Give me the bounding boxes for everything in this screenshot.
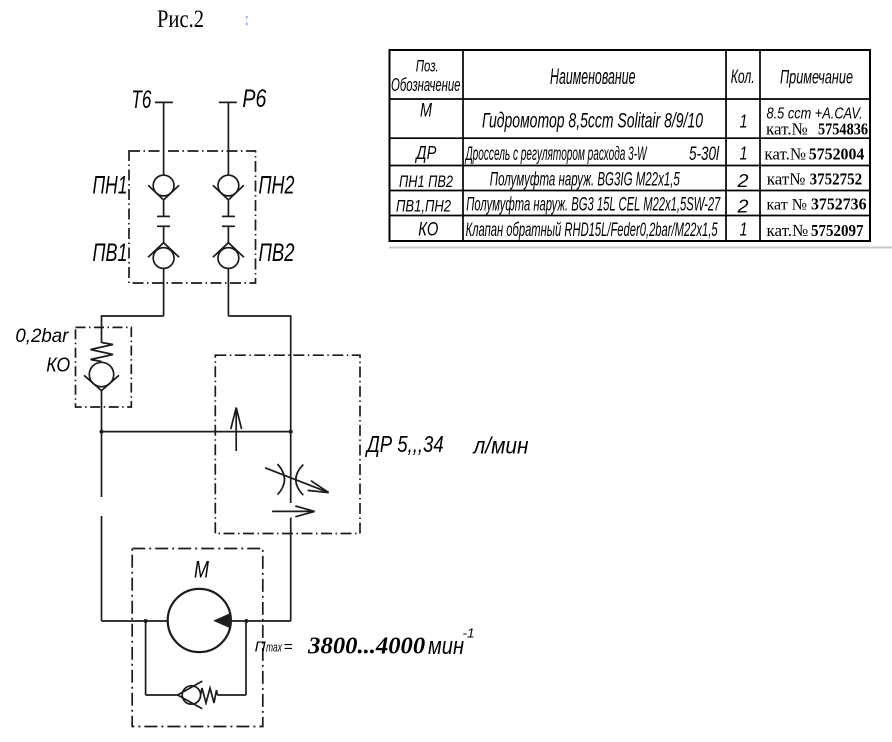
svg-text:Наименование: Наименование	[550, 64, 636, 89]
svg-text:ПВ2: ПВ2	[259, 239, 295, 267]
svg-text:5754836: 5754836	[818, 120, 868, 139]
svg-text:Обозначение: Обозначение	[391, 75, 461, 95]
svg-text:кат №: кат №	[767, 197, 807, 214]
svg-text:2: 2	[736, 197, 748, 217]
svg-text:3752736: 3752736	[811, 195, 867, 214]
svg-text:М: М	[420, 101, 432, 122]
svg-text:1: 1	[740, 144, 748, 164]
svg-text:5-30l: 5-30l	[689, 144, 720, 165]
svg-text:-1: -1	[463, 626, 475, 641]
svg-text:Клапан обратный RHD15L/Feder0,: Клапан обратный RHD15L/Feder0,2bar/M22x1…	[466, 220, 718, 241]
svg-text:М: М	[194, 557, 209, 584]
svg-text:л/мин: л/мин	[472, 433, 529, 459]
svg-text:кат.№: кат.№	[764, 145, 806, 164]
svg-text:3800...4000: 3800...4000	[307, 634, 425, 660]
svg-text:Полумуфта наруж. BG3 15L CEL M: Полумуфта наруж. BG3 15L CEL M22x1,5SW-2…	[466, 195, 721, 216]
svg-text:кат№: кат№	[767, 170, 806, 189]
svg-text:ПН2: ПН2	[259, 172, 295, 200]
svg-text:Примечание: Примечание	[780, 68, 853, 89]
svg-text:1: 1	[740, 112, 748, 132]
svg-text:Гидромотор 8,5сст Solitair 8/9: Гидромотор 8,5сст Solitair 8/9/10	[482, 110, 703, 133]
svg-text:кат.№: кат.№	[767, 221, 809, 240]
svg-text:ДР: ДР	[415, 143, 437, 163]
svg-text:ПВ1: ПВ1	[93, 239, 128, 267]
svg-text:=: =	[284, 639, 293, 656]
svg-text:ПВ1,ПН2: ПВ1,ПН2	[396, 197, 451, 216]
svg-text:Рис.2: Рис.2	[157, 6, 204, 33]
svg-text:Кол.: Кол.	[731, 67, 755, 88]
svg-text:ПН1 ПВ2: ПН1 ПВ2	[399, 172, 453, 191]
svg-text:Дроссель с регулятором расхода: Дроссель с регулятором расхода 3-W	[465, 144, 648, 165]
svg-text:КО: КО	[418, 220, 438, 241]
svg-text:КО: КО	[46, 355, 70, 377]
svg-text:кат.№: кат.№	[766, 120, 808, 139]
svg-text:0,2bar: 0,2bar	[15, 326, 69, 347]
svg-text:5752004: 5752004	[809, 145, 865, 164]
svg-text:Полумуфта наруж. BG3IG M22x1,5: Полумуфта наруж. BG3IG M22x1,5	[490, 170, 680, 191]
svg-text:ПН1: ПН1	[93, 172, 128, 200]
svg-text:Т6: Т6	[131, 86, 151, 114]
svg-text:П: П	[255, 639, 266, 656]
svg-text:Поз.: Поз.	[416, 57, 439, 76]
svg-text:5752097: 5752097	[811, 221, 864, 240]
svg-text:max: max	[266, 640, 282, 655]
svg-text:2: 2	[736, 171, 748, 191]
svg-text:1: 1	[740, 220, 748, 240]
svg-text:Р6: Р6	[242, 85, 266, 113]
svg-text:мин: мин	[428, 633, 464, 660]
svg-text:ДР 5,,,34: ДР 5,,,34	[364, 431, 443, 457]
svg-text:3752752: 3752752	[810, 170, 863, 189]
